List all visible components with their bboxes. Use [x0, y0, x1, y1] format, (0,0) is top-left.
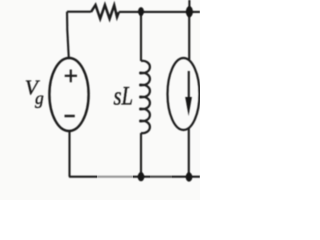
- svg-text:g: g: [35, 88, 44, 108]
- wire right vertical above top node: [188, 0, 190, 12]
- node dot top middle: [138, 7, 144, 16]
- faded segment of bottom wire: [97, 175, 133, 180]
- wire left vertical upper: [67, 12, 69, 59]
- wire right vertical lower: [188, 129, 190, 178]
- wire right vertical upper: [188, 12, 190, 60]
- current source arrowhead: [185, 97, 192, 116]
- wire bottom horizontal: [69, 176, 200, 178]
- minus sign: [65, 115, 75, 117]
- wire top-right horizontal: [119, 11, 200, 13]
- coil joint knots: [139, 72, 142, 123]
- node dot bottom right: [186, 172, 193, 181]
- faded segment of bottom wire right: [150, 175, 172, 180]
- inductor sL coil: [141, 61, 150, 133]
- wire middle vertical upper: [140, 12, 142, 61]
- wire middle vertical lower: [140, 133, 142, 177]
- current source arrow shaft: [188, 71, 190, 99]
- node dot top right: [186, 6, 193, 17]
- node dot bottom middle: [138, 172, 145, 181]
- wire left vertical lower: [68, 131, 70, 177]
- plus sign: [65, 70, 77, 83]
- svg-text:sL: sL: [114, 82, 134, 111]
- wire top-left horizontal: [67, 11, 91, 13]
- current source ellipse: [168, 58, 200, 130]
- resistor: [91, 5, 119, 19]
- voltage source Vg ellipse: [49, 58, 88, 131]
